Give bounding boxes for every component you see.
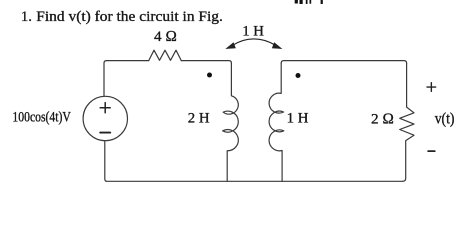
svg-text:1 H: 1 H — [287, 111, 309, 127]
source plus — [100, 103, 110, 113]
wire top right segment — [281, 61, 406, 64]
svg-text:4 Ω: 4 Ω — [154, 28, 177, 45]
source minus — [100, 132, 110, 134]
dot mark left coil — [207, 73, 212, 78]
wire top-left segment — [107, 60, 149, 62]
svg-text:1.: 1. — [21, 9, 32, 25]
output plus — [427, 83, 436, 92]
svg-text:100cos(4t)V: 100cos(4t)V — [12, 110, 71, 126]
wire left rail top — [104, 61, 107, 97]
wire left rail bottom — [105, 141, 107, 182]
output minus — [428, 150, 435, 152]
inductor L2 1H — [269, 63, 284, 181]
svg-text:v(t): v(t) — [435, 111, 455, 128]
svg-text:1 H: 1 H — [242, 24, 264, 40]
dot mark right coil — [296, 73, 301, 78]
wire bottom — [107, 180, 403, 182]
resistor R2 2ohm vertical zigzag — [400, 63, 414, 181]
svg-text:2 Ω: 2 Ω — [371, 110, 394, 127]
inductor L1 2H — [223, 63, 239, 181]
mutual coupling arrow — [226, 39, 281, 49]
wire top mid segment — [181, 61, 231, 64]
svg-text:2 H: 2 H — [188, 111, 210, 127]
resistor R1 4ohm zigzag — [149, 50, 182, 60]
svg-text:Find v(t) for the circuit in F: Find v(t) for the circuit in Fig. — [36, 9, 223, 25]
stray cropped glyph bottoms at top edge — [295, 0, 323, 4]
voltage source V1 circle — [83, 96, 127, 140]
